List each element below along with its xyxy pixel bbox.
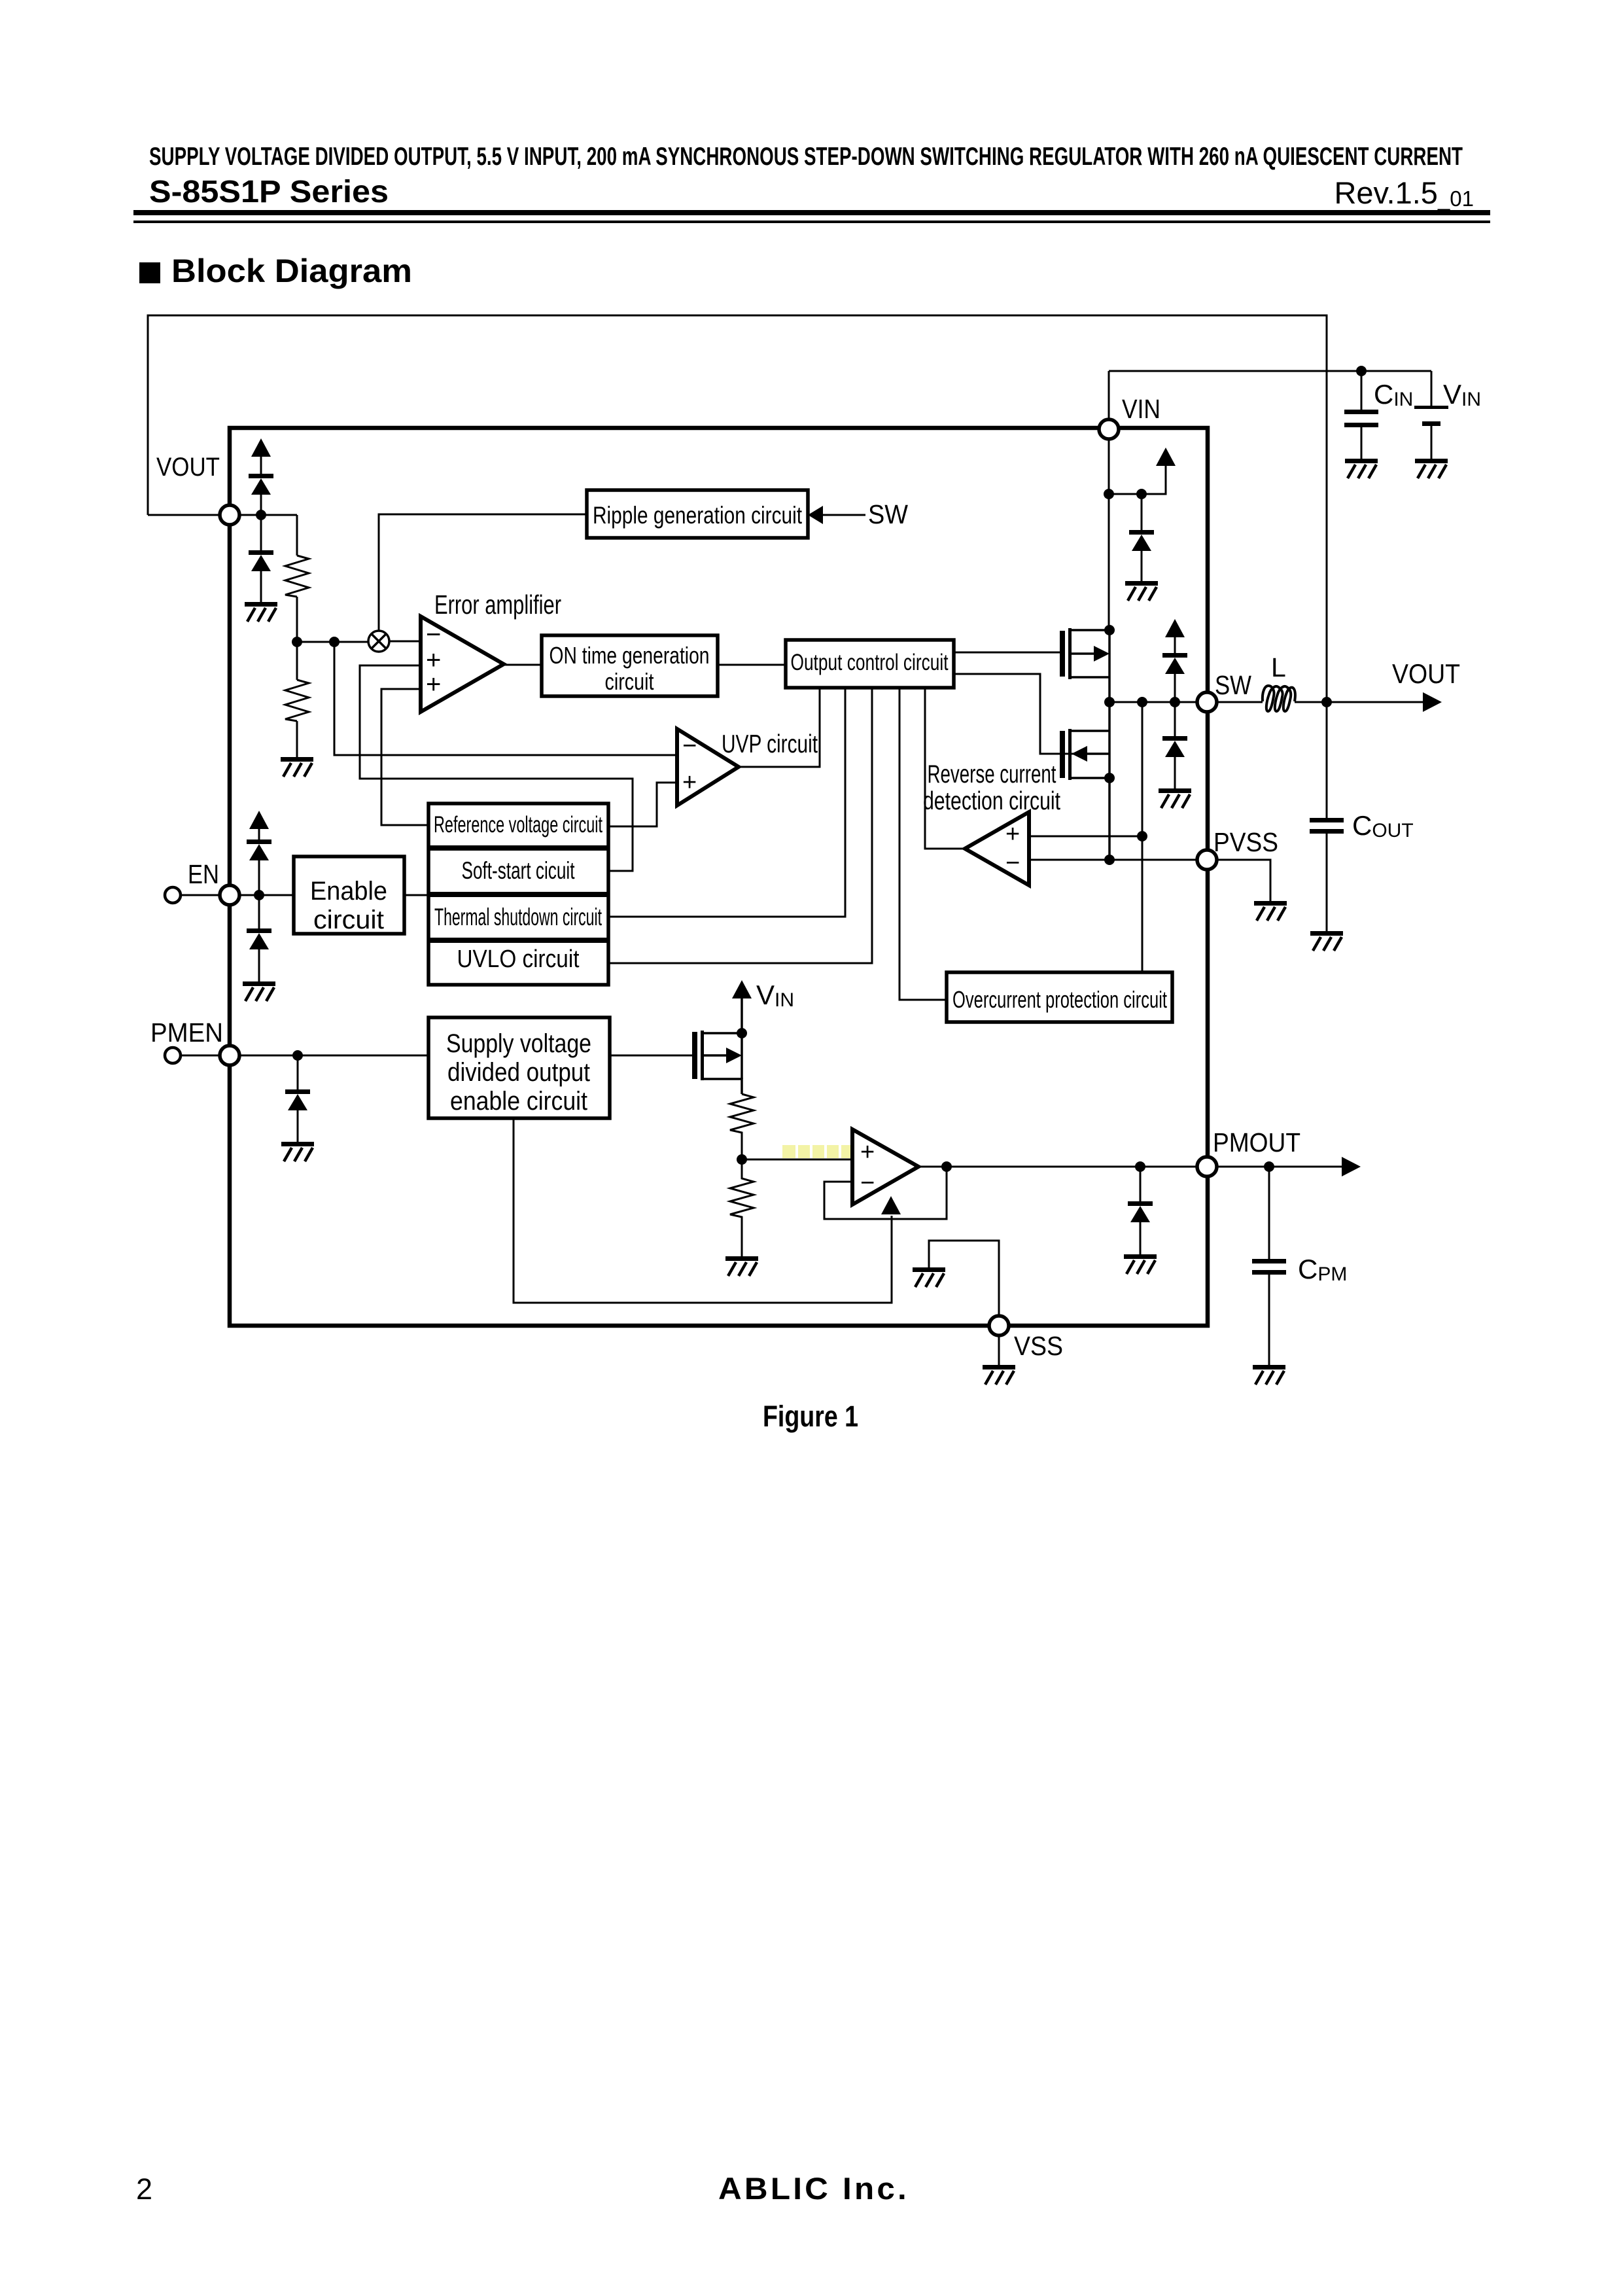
node EN ESD junction (254, 890, 264, 900)
block divider ref/soft (428, 845, 608, 851)
transistor Q2 body lead (1086, 752, 1109, 755)
watermark (782, 1145, 852, 1158)
svg-text:Reference voltage circuit: Reference voltage circuit (434, 812, 602, 838)
wire PM comparator feedback loop (824, 1167, 947, 1219)
block internal circuits stack (428, 804, 608, 985)
wire reference to UVP plus input (608, 783, 677, 826)
wire EN pin to enable box (239, 894, 294, 896)
svg-text:+: + (682, 769, 697, 796)
ESD protection diode D7 upper (SW) (1174, 637, 1176, 702)
node PMEN ESD junction (292, 1050, 303, 1061)
node SW junction c (1170, 697, 1180, 707)
wire SW net label lead (823, 514, 865, 516)
resistor R1 (feedback divider top) (285, 556, 309, 597)
ground (VIN source) (1415, 459, 1448, 478)
block Overcurrent protection circuit (947, 972, 1172, 1022)
wire ON time to output control (718, 664, 786, 666)
wire reverse comparator plus to SW branch (1029, 836, 1142, 838)
resistor R3 (monitor divider top) (730, 1094, 754, 1159)
transistor Q2 body arrow (1072, 746, 1087, 762)
node Q2 source (1104, 773, 1115, 783)
ground (PMEN ESD) (281, 1142, 314, 1161)
wire SW pin to inductor (1217, 701, 1263, 703)
ground (PVSS) (1254, 901, 1287, 921)
svg-text:Figure 1: Figure 1 (763, 1400, 858, 1433)
svg-text:Supply voltage: Supply voltage (446, 1029, 591, 1058)
svg-text:SW: SW (868, 499, 908, 529)
op-amp PM comparator (852, 1129, 918, 1205)
transistor Q1 power PMOS gate (1060, 631, 1065, 677)
wire supply box to PM comparator enable (514, 1118, 892, 1303)
transistor Q2 channel (1068, 729, 1072, 780)
transistor Q1 body arrow (1094, 646, 1109, 662)
arrow to VIN (ESD) (1156, 448, 1176, 466)
svg-text:CPM: CPM (1298, 1254, 1347, 1285)
svg-text:VIN: VIN (1443, 379, 1481, 410)
pin PVSS (1197, 850, 1217, 870)
wire PMEN pin to supply box (239, 1055, 428, 1057)
pin VSS (989, 1316, 1009, 1335)
svg-text:Block Diagram: Block Diagram (171, 253, 412, 289)
node SW junction a (1104, 697, 1115, 707)
summing node circle (368, 631, 389, 652)
svg-text:Reverse current: Reverse current (928, 760, 1056, 788)
node divider tap (292, 637, 302, 647)
pin VOUT (220, 505, 239, 525)
svg-text:VOUT: VOUT (1392, 658, 1460, 689)
wire summing to error amp minus (389, 641, 421, 643)
wire thermal shutdown to output control (608, 688, 845, 917)
svg-text:Output control circuit: Output control circuit (791, 650, 949, 675)
svg-text:L: L (1271, 652, 1286, 682)
transistor Q3 source lead (704, 1079, 742, 1094)
transistor Q3 channel (701, 1031, 704, 1080)
ESD protection diode D2 lower (VOUT) (260, 515, 262, 602)
arrow SW into ripple box (808, 506, 823, 524)
ESD protection diode D4 lower (EN) (258, 895, 260, 981)
wire VIN pin to rail (1108, 371, 1110, 419)
wire SW node line (1109, 701, 1197, 703)
svg-text:COUT: COUT (1352, 810, 1414, 841)
svg-text:Soft-start cicuit: Soft-start cicuit (462, 857, 575, 884)
wire tap to UVP minus input (334, 642, 677, 755)
ground (VOUT ESD) (245, 602, 277, 622)
wire PMOS gate line (954, 652, 1060, 654)
wire PVSS net (1029, 859, 1197, 861)
svg-text:+: + (1005, 821, 1020, 848)
pin SW (1197, 692, 1217, 712)
wire VOUT line down to R1 (296, 515, 298, 556)
svg-text:PMOUT: PMOUT (1213, 1127, 1300, 1157)
capacitor COUT (1326, 702, 1328, 931)
ESD protection diode D8 lower (SW) (1174, 702, 1176, 788)
svg-text:CIN: CIN (1374, 379, 1413, 410)
svg-text:−: − (1005, 849, 1020, 877)
wire EN terminal to pin (181, 894, 227, 896)
ground (VSS external) (983, 1365, 1015, 1385)
svg-text:−: − (682, 732, 697, 760)
node Q3 drain (737, 1028, 747, 1038)
transistor Q1 body lead (1072, 652, 1095, 655)
svg-text:VIN: VIN (756, 980, 794, 1011)
wire reference to error amp plus2 (381, 689, 430, 825)
ESD protection diode D6 (VIN) (1141, 494, 1143, 581)
wire PVSS pin to ground (1217, 860, 1270, 901)
transistor Q3 drain lead (704, 998, 742, 1033)
node Q1 drain (1104, 625, 1115, 635)
terminal PMEN (165, 1048, 181, 1063)
node NMOS source on PVSS (1104, 855, 1115, 865)
svg-text:enable circuit: enable circuit (450, 1087, 587, 1116)
svg-text:S-85S1P Series: S-85S1P Series (149, 175, 389, 209)
wire VIN rail (1109, 370, 1431, 372)
IC package boundary (230, 428, 1208, 1326)
svg-text:−: − (426, 620, 441, 649)
node UVP sense branch (329, 637, 340, 647)
wire VIN ESD branch (1109, 466, 1166, 494)
resistor R4 (monitor divider bottom) (730, 1159, 754, 1256)
svg-text:circuit: circuit (605, 668, 654, 695)
svg-text:divided output: divided output (447, 1058, 590, 1087)
node PMOUT ESD junction (1135, 1161, 1145, 1172)
pin VIN (1099, 419, 1119, 439)
svg-text:PVSS: PVSS (1213, 827, 1278, 857)
capacitor CPM (1268, 1167, 1270, 1365)
block Enable circuit (294, 857, 404, 934)
transistor Q2 power NMOS gate (1060, 731, 1065, 778)
inductor L (1263, 686, 1295, 711)
ESD protection diode D5 (PMEN) (297, 1055, 299, 1142)
wire reverse current comparator to output control (925, 688, 965, 849)
svg-text:Error amplifier: Error amplifier (434, 590, 561, 620)
ground (COUT) (1310, 931, 1343, 951)
ground (PMOUT ESD) (1124, 1254, 1157, 1274)
wire SW branch to overcurrent box (1142, 702, 1143, 972)
wire PMEN terminal to pin (181, 1055, 227, 1057)
wire Q1 vertical to SW (1108, 630, 1111, 702)
ESD protection diode D9 (PMOUT) (1140, 1167, 1142, 1254)
wire VSS pin to external ground (998, 1335, 1000, 1365)
svg-text:Enable: Enable (310, 877, 387, 906)
block divider thermal/uvlo (428, 938, 608, 943)
ground (CPM) (1253, 1365, 1285, 1385)
ground (SW ESD) (1159, 788, 1191, 808)
svg-text:Overcurrent protection circuit: Overcurrent protection circuit (952, 986, 1167, 1013)
wire VOUT pin to divider branch (239, 514, 297, 516)
wire divider tap to PM comparator plus (742, 1159, 852, 1161)
svg-text:ON time generation: ON time generation (550, 642, 710, 669)
node PM comparator output feedback (941, 1161, 952, 1172)
wire tap node to summing (297, 641, 368, 643)
section marker square (139, 262, 160, 283)
ground (R2) (281, 757, 313, 777)
svg-text:SW: SW (1215, 670, 1251, 700)
svg-text:+: + (426, 670, 441, 699)
arrow VOUT output (1423, 692, 1442, 712)
svg-text:+: + (860, 1139, 875, 1166)
svg-text:VIN: VIN (1122, 394, 1161, 424)
ground (VSS internal) (913, 1267, 945, 1287)
wire enable box to stack (404, 894, 428, 896)
node monitor divider tap (737, 1154, 747, 1165)
op-amp error amplifier (421, 616, 504, 712)
transistor Q3 supply-divider PMOS gate (692, 1032, 697, 1079)
transistor Q3 body arrow (726, 1048, 742, 1063)
node CIN junction (1356, 366, 1367, 376)
node reverse comparator plus branch (1137, 831, 1147, 841)
svg-text:EN: EN (188, 859, 219, 889)
wire error amp output to ON time box (504, 664, 542, 666)
svg-text:Thermal shutdown circuit: Thermal shutdown circuit (434, 904, 602, 930)
svg-text:UVLO circuit: UVLO circuit (457, 945, 580, 973)
wire ripple output to summing node (379, 514, 587, 631)
arrow PMOUT output (1342, 1157, 1361, 1176)
svg-text:VSS: VSS (1014, 1331, 1063, 1361)
ground (R4) (725, 1256, 758, 1276)
node SW junction b (1137, 697, 1147, 707)
node VIN ESD branch a (1104, 489, 1114, 499)
transistor Q1 channel (1068, 628, 1072, 679)
transistor Q3 body lead (704, 1054, 727, 1057)
pin VSS internal wire (929, 1241, 999, 1316)
header rule thick (133, 210, 1490, 215)
wire soft-start to error amp plus1 (360, 665, 633, 871)
block Supply voltage divided output enable circuit (428, 1017, 610, 1118)
wire R1 to tap node (296, 597, 298, 642)
ESD protection diode D3 upper (EN) (258, 828, 260, 895)
svg-text:detection circuit: detection circuit (923, 787, 1060, 815)
header rule thin (133, 221, 1490, 223)
op-amp UVP comparator (677, 729, 739, 805)
op-amp reverse current comparator (965, 812, 1029, 885)
wire VIN pin into IC (1108, 439, 1110, 630)
wire VOUT pin to loop (148, 514, 220, 516)
block ON time generation circuit (542, 635, 718, 696)
transistor Q2 drain lead (1072, 730, 1109, 732)
wire supply box output to PMOS gate (610, 1055, 692, 1057)
wire inductor to VOUT arrow (1295, 701, 1423, 703)
block Ripple generation circuit (587, 490, 808, 538)
ground (VIN ESD) (1125, 581, 1158, 601)
wire UVLO to output control (608, 688, 872, 963)
node VOUT output junction (1321, 697, 1332, 707)
node CPM junction (1264, 1161, 1274, 1172)
wire Q2 verticals (1108, 702, 1111, 778)
block divider soft/thermal (428, 892, 608, 897)
transistor Q1 source lead (1072, 676, 1109, 679)
PM comparator enable arrow (881, 1196, 901, 1214)
ESD protection diode D1 upper (VOUT) (260, 456, 262, 515)
svg-text:SUPPLY VOLTAGE DIVIDED OUTPUT,: SUPPLY VOLTAGE DIVIDED OUTPUT, 5.5 V INP… (149, 143, 1463, 171)
resistor R2 (feedback divider bottom) (296, 642, 298, 680)
svg-text:Rev.1.5_01: Rev.1.5_01 (1334, 175, 1474, 211)
ground (CIN) (1345, 459, 1378, 478)
node VIN ESD branch b (1136, 489, 1147, 499)
ground (EN ESD) (243, 981, 275, 1001)
svg-text:UVP circuit: UVP circuit (722, 730, 818, 758)
block Output control circuit (786, 640, 954, 688)
pin PMEN (220, 1046, 239, 1065)
transistor Q2 source lead (1072, 777, 1109, 779)
battery VIN source (1431, 371, 1433, 459)
svg-text:PMEN: PMEN (150, 1017, 223, 1048)
wire PM comparator output to PMOUT (918, 1166, 1197, 1168)
wire PMOUT pin to arrow (1217, 1166, 1342, 1168)
node VOUT divider junction (256, 510, 266, 520)
svg-text:ABLIC Inc.: ABLIC Inc. (718, 2171, 909, 2206)
pin EN (220, 885, 239, 905)
svg-text:2: 2 (136, 2172, 152, 2206)
wire NMOS gate line (954, 674, 1086, 754)
svg-text:VOUT: VOUT (156, 453, 220, 482)
svg-text:circuit: circuit (313, 906, 384, 934)
power symbol VIN arrow (PMEN monitor) (732, 980, 752, 998)
svg-text:−: − (860, 1169, 875, 1197)
wire overcurrent to output control (899, 688, 947, 1000)
wire feedback loop rectangle (148, 315, 1327, 700)
transistor Q1 drain lead (1072, 629, 1109, 631)
terminal EN (165, 887, 181, 903)
wire UVP output to output control (739, 688, 820, 767)
svg-text:Ripple generation circuit: Ripple generation circuit (593, 502, 803, 529)
pin PMOUT (1197, 1157, 1217, 1176)
capacitor CIN (1361, 371, 1363, 459)
